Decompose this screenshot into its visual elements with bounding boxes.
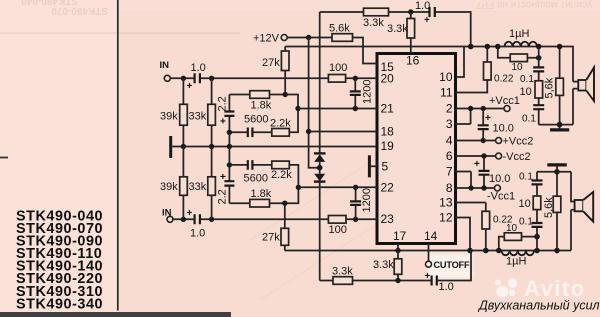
wire: input line to pin 20 (top)	[201, 77, 378, 79]
svg-text:5600: 5600	[244, 173, 268, 185]
terminal -Vcc1	[487, 185, 515, 203]
wire: feedback vertical to diodes	[319, 12, 321, 153]
node: damping/zobel joint	[536, 55, 542, 61]
svg-text:2.2: 2.2	[217, 189, 229, 204]
svg-text:0.1: 0.1	[519, 217, 533, 228]
svg-text:STK490-340: STK490-340	[16, 296, 103, 312]
svg-text:1.0: 1.0	[439, 281, 454, 293]
svg-text:+: +	[424, 15, 430, 26]
ground bar left	[169, 136, 172, 158]
node: after input cap (bottom)	[209, 217, 214, 222]
wire: pin 3 to pin 2	[456, 109, 471, 125]
wire: pin 18 line	[309, 131, 377, 133]
IN terminal (bottom channel)	[162, 208, 173, 223]
node: 3.3k/1.0 bottom junction	[395, 278, 400, 283]
capacitor 5600 (bottom)	[229, 160, 271, 184]
svg-text:IN: IN	[160, 60, 170, 71]
CUTOFF terminal pin 14	[426, 244, 470, 271]
svg-text:1.8k: 1.8k	[251, 100, 272, 112]
svg-text:27k: 27k	[262, 57, 280, 69]
node: damping resistor tap (bottom)	[496, 248, 502, 254]
svg-text:2.2: 2.2	[217, 96, 229, 111]
resistor 10 (top zobel)	[520, 81, 543, 98]
node: input junction (bottom)	[181, 217, 186, 222]
svg-text:5,6k: 5,6k	[544, 77, 556, 98]
svg-text:11: 11	[440, 86, 453, 100]
node: pin23/1200 junction (bottom)	[353, 217, 358, 222]
svg-text:3.3k: 3.3k	[332, 266, 353, 278]
svg-text:10: 10	[520, 86, 532, 98]
wire: pin 4 +Vcc2	[456, 140, 496, 142]
svg-text:CUTOFF: CUTOFF	[434, 260, 470, 270]
wire: +12V bias drop to pin 18 and diodes	[309, 38, 320, 168]
svg-text:0.22: 0.22	[494, 74, 514, 85]
svg-text:усилит мощности на FP7: усилит мощности на FP7	[475, 0, 592, 10]
node: zobel bottom junction	[534, 248, 540, 254]
speaker (bottom channel)	[571, 172, 593, 251]
diode D1 (upper)	[314, 153, 326, 167]
faint ghost diagonal streaks	[250, 60, 470, 300]
wire: +12V rail	[287, 37, 332, 39]
node: 5600/2.2 ground tap (top)	[227, 130, 232, 135]
node: 10.0 bottom	[481, 138, 486, 143]
svg-text:10: 10	[439, 70, 453, 84]
capacitor 1200 (top)	[350, 78, 374, 108]
svg-text:33k: 33k	[189, 110, 207, 122]
node: 5.6k top	[557, 44, 563, 50]
svg-text:-Vcc1: -Vcc1	[487, 191, 515, 203]
node: diode midpoint	[317, 165, 323, 171]
node: +12V junction	[306, 35, 311, 40]
node: damping/zobel joint (bottom)	[534, 234, 540, 240]
+12V terminal	[253, 33, 287, 45]
svg-text:+: +	[220, 172, 226, 183]
white patch behind CUTOFF	[428, 254, 472, 279]
terminal -Vcc2	[496, 151, 531, 163]
svg-text:1.8k: 1.8k	[251, 188, 272, 200]
capacitor 1200 (bottom)	[350, 187, 373, 219]
svg-text:5: 5	[382, 160, 389, 174]
svg-text:2.2k: 2.2k	[270, 118, 291, 130]
svg-text:7: 7	[446, 165, 453, 179]
capacitor 10.0 (-Vcc)	[474, 156, 510, 188]
svg-text:5,6k: 5,6k	[543, 197, 555, 218]
left edge mark	[0, 157, 8, 159]
resistor 1.8k (top)	[229, 91, 298, 112]
svg-text:1.0: 1.0	[191, 62, 206, 74]
capacitor 5600 (top)	[229, 114, 271, 138]
svg-text:10: 10	[512, 62, 524, 73]
wire: zobel ground line (bottom)	[537, 171, 571, 173]
svg-text:+Vcc1: +Vcc1	[489, 95, 520, 107]
node: pin17/3.3k bus junction	[395, 248, 400, 253]
node: 0.22 bottom junction	[483, 248, 489, 254]
wire: ground bus to pin 19	[172, 146, 377, 148]
svg-text:23: 23	[381, 212, 395, 226]
op-amp IC STK490 body	[377, 54, 456, 244]
wire: pin 22 line	[298, 186, 377, 188]
resistor 3.3k (bottom feedback horizontal)	[332, 266, 353, 285]
node: 1200 to pin22 (bottom)	[353, 185, 358, 190]
svg-text:3.3k: 3.3k	[363, 17, 384, 29]
ground (top channel)	[550, 125, 569, 130]
wire: input line to pin 23 (bottom)	[201, 218, 378, 220]
node: output/feedback cap junction (top)	[468, 44, 474, 50]
svg-text:0.1: 0.1	[522, 114, 536, 125]
wire: ground tap to bus (top)	[228, 132, 230, 146]
node: channel caps ground	[227, 144, 232, 149]
svg-text:1.0: 1.0	[415, 0, 430, 12]
resistor 3.3k (pin 17 vertical)	[373, 251, 402, 281]
svg-text:17: 17	[393, 229, 407, 243]
resistor 5.6k (pin 15)	[329, 23, 353, 42]
divider line	[117, 0, 119, 311]
ground (bottom channel)	[547, 165, 567, 172]
speaker (top channel)	[573, 68, 594, 125]
node: pin22 feedback junction (bottom)	[296, 185, 301, 190]
resistor 2.2k (bottom)	[271, 161, 298, 187]
resistor 100 (top)	[328, 62, 347, 82]
wire: pin 6 -Vcc2	[456, 155, 496, 157]
svg-text:16: 16	[406, 54, 420, 68]
svg-text:5.6k: 5.6k	[329, 23, 350, 35]
node: 5600/2.2 ground tap (bottom)	[227, 162, 232, 167]
resistor 27k (bottom)	[262, 203, 289, 250]
svg-text:1µH: 1µH	[506, 256, 526, 268]
diode D2 (lower)	[314, 168, 326, 281]
svg-text:1.0: 1.0	[190, 228, 205, 240]
svg-text:Avito: Avito	[524, 276, 586, 301]
capacitor 10.0 (+Vcc)	[478, 109, 514, 141]
svg-text:8: 8	[446, 181, 453, 195]
resistor 5.6k (bottom zobel)	[543, 172, 561, 251]
resistor 33k (bottom)	[189, 147, 216, 220]
node: zobel ground junction (top)	[557, 122, 563, 128]
svg-text:14: 14	[424, 229, 438, 243]
node: pin7 junction	[468, 185, 473, 190]
node: input junction (top)	[181, 76, 186, 81]
wire: pin 21 line	[298, 108, 377, 110]
node: zobel ground junction (bottom)	[554, 169, 560, 175]
svg-text:Двухканальный усили: Двухканальный усили	[477, 299, 600, 313]
svg-text:10: 10	[506, 223, 518, 234]
faint ghost vertical inside IC	[416, 70, 418, 230]
capacitor 1.0 input (top)	[187, 62, 206, 92]
wire: ground tap to bus (bottom)	[228, 147, 230, 165]
resistor 1.8k (bottom)	[229, 187, 298, 207]
svg-text:+: +	[474, 159, 480, 170]
node: pin12/1.0 junction	[467, 248, 473, 254]
svg-text:18: 18	[381, 125, 395, 139]
wire: pin 8 -Vcc1	[456, 187, 495, 189]
svg-text:+: +	[187, 208, 193, 219]
svg-text:27k: 27k	[262, 232, 280, 244]
node: 27k/1.8k junction (bottom)	[282, 201, 287, 206]
svg-text:22: 22	[381, 181, 395, 195]
svg-text:100: 100	[329, 224, 347, 236]
svg-text:3.3k: 3.3k	[387, 23, 408, 35]
wire: IN to input cap (top)	[170, 77, 194, 79]
node: pin3 junction	[468, 106, 473, 111]
svg-text:+: +	[425, 271, 431, 282]
resistor 39k (bottom)	[160, 147, 187, 220]
resistor 10 damping (bottom)	[499, 223, 537, 251]
svg-text:20: 20	[381, 72, 395, 86]
wire: bottom feedback rail	[320, 251, 471, 281]
svg-text:-Vcc2: -Vcc2	[503, 151, 531, 163]
svg-text:+: +	[485, 113, 491, 124]
wire: IN to input cap (bottom)	[173, 218, 194, 220]
faint show-through text top-left	[21, 0, 108, 16]
svg-text:1200: 1200	[362, 80, 374, 104]
terminal +Vcc2	[496, 136, 534, 148]
svg-text:21: 21	[381, 102, 395, 116]
resistor 33k (top)	[189, 78, 216, 146]
node: 10.0 to pin 8	[481, 185, 486, 190]
svg-text:1200: 1200	[361, 188, 373, 212]
svg-text:2: 2	[446, 102, 453, 116]
node: 0.22 top junction	[485, 44, 491, 50]
wire: pin 7 to pin 8	[456, 172, 472, 189]
pin 5 decoupling plate symbol	[368, 155, 377, 177]
resistor 27k (top)	[262, 47, 289, 95]
svg-text:19: 19	[381, 139, 395, 153]
wire: pin 2 +Vcc1	[456, 108, 504, 110]
dark bottom-left bar	[0, 312, 231, 317]
capacitor 0.1 upper (top zobel)	[520, 47, 544, 86]
node: zobel top junction	[536, 44, 542, 50]
capacitor 1.0 (bottom feedback)	[425, 271, 454, 293]
node: 3.3k feedback junction	[408, 9, 413, 14]
svg-text:39k: 39k	[160, 181, 178, 193]
svg-text:2.2k: 2.2k	[271, 169, 292, 181]
resistor 10 damping (top)	[498, 47, 539, 74]
capacitor 2.2 (bottom)	[217, 165, 235, 205]
svg-text:13: 13	[439, 196, 453, 210]
svg-text:33k: 33k	[189, 181, 207, 193]
Avito watermark logo	[495, 278, 517, 297]
svg-text:10.0: 10.0	[493, 123, 514, 135]
capacitor 1.0 (top feedback)	[415, 0, 435, 26]
resistor 3.3k (pin 16 vertical)	[387, 12, 415, 54]
resistor 0.22 (top)	[456, 47, 514, 93]
node: 5.6k bottom bus	[554, 248, 560, 254]
wire: pin 17 stub	[397, 244, 399, 251]
node: 33k ground	[209, 144, 214, 149]
terminal +Vcc1	[489, 95, 520, 112]
IN terminal (top channel)	[160, 60, 171, 81]
wire: output/bootstrap line (top channel)	[285, 47, 573, 82]
resistor 10 (bottom zobel)	[519, 196, 541, 210]
resistor 39k (top)	[160, 78, 187, 146]
wire: pin 12 to output bus	[456, 218, 471, 251]
capacitor 0.1 lower (bottom zobel)	[519, 210, 543, 251]
svg-text:10.0: 10.0	[489, 173, 510, 185]
capacitor 0.1 lower (top zobel)	[522, 98, 544, 125]
svg-text:12: 12	[439, 211, 453, 225]
capacitor 2.2 (top)	[217, 95, 235, 133]
svg-text:100: 100	[329, 62, 347, 74]
node: after input cap (top)	[209, 76, 214, 81]
wire: pin 10 to output line	[456, 47, 465, 78]
svg-text:+: +	[187, 81, 193, 92]
wire: output bus (bottom channel)	[285, 250, 571, 252]
node: pin20/1200 junction (top)	[353, 76, 358, 81]
inductor 1uH (top)	[505, 28, 538, 47]
lighter left panel	[0, 0, 117, 317]
node: 1200 to pin21 (top)	[353, 106, 358, 111]
resistor 0.22 (bottom)	[456, 203, 513, 251]
svg-text:6: 6	[446, 149, 453, 163]
resistor 3.3k (top feedback horizontal)	[363, 8, 389, 29]
node: -Vcc2 cap junction	[481, 153, 486, 158]
node: pin21 feedback junction (top)	[295, 106, 300, 111]
svg-text:STK490-040: STK490-040	[21, 0, 78, 6]
node: 27k/1.8k junction (top)	[283, 92, 288, 97]
svg-text:0.1: 0.1	[520, 74, 534, 85]
svg-text:0.1: 0.1	[519, 172, 533, 183]
node: 10.0 top	[481, 106, 486, 111]
svg-text:+: +	[220, 117, 226, 128]
wire: 5.6k to pin 15	[353, 38, 378, 64]
svg-text:5600: 5600	[244, 114, 268, 126]
inductor 1uH (bottom)	[502, 251, 535, 268]
resistor 2.2k (top)	[270, 109, 298, 137]
svg-text:+12V: +12V	[253, 33, 280, 45]
svg-text:4: 4	[446, 134, 453, 148]
resistor 5.6k (top zobel)	[544, 47, 564, 125]
svg-text:1µH: 1µH	[509, 28, 529, 40]
svg-text:39k: 39k	[160, 110, 178, 122]
node: 39k ground (39k top channel bottom)	[181, 144, 186, 149]
capacitor 1.0 input (bottom)	[187, 208, 206, 240]
wire: top feedback rail	[320, 12, 471, 47]
capacitor 0.1 upper (bottom zobel)	[519, 172, 543, 197]
node: damping resistor tap (top)	[495, 44, 501, 50]
node: pin 18 bias junction	[306, 129, 311, 134]
svg-text:+Vcc2: +Vcc2	[503, 136, 534, 148]
svg-text:10: 10	[519, 198, 531, 210]
resistor 100 (bottom)	[328, 216, 346, 237]
svg-text:3.3k: 3.3k	[373, 259, 394, 271]
svg-text:3: 3	[446, 117, 453, 131]
wire: zobel ground line (top)	[539, 124, 573, 126]
